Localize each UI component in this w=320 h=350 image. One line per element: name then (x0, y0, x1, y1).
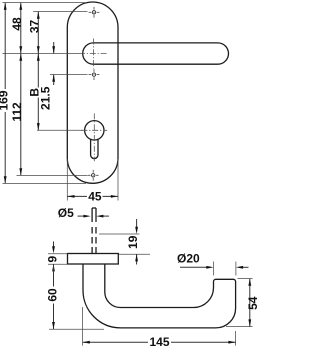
ext line middle hole (50, 74, 88, 76)
spindle solid part (92, 208, 96, 222)
lever centerline dash-dot (79, 53, 108, 55)
ext line top hole (33, 11, 88, 13)
ext line rose top right (118, 253, 150, 255)
euro cylinder hole (85, 121, 104, 159)
ext line 145 right (235, 331, 237, 346)
dim 9 arrows (outside) (53, 242, 55, 250)
lever hub vertical centerline (93, 39, 95, 69)
dim 45 label (87, 192, 103, 202)
ext line 45 right (117, 159, 119, 201)
ext line bottom hole (17, 174, 88, 176)
dim 112 line (20, 54, 22, 176)
svg-text:21.5: 21.5 (39, 86, 53, 110)
dim 19 arrows (outside) (136, 219, 138, 230)
dim 54 line (249, 279, 251, 327)
handle profile (side view) (83, 264, 236, 328)
svg-text:9: 9 (46, 256, 60, 263)
spindle hidden part (dashed) (92, 227, 96, 254)
svg-text:60: 60 (46, 288, 60, 302)
svg-text:54: 54 (246, 296, 257, 310)
ext line plate top (3, 2, 87, 4)
dim Ø5 right arrow (100, 215, 109, 217)
dim 169 line (4, 3, 6, 184)
dim Ø5 leader arrow (78, 215, 88, 217)
cylinder horizontal centerline (81, 129, 107, 131)
dim 145 label (148, 337, 171, 347)
lever centerline extension (3, 53, 80, 55)
dim 45 line (67, 195, 118, 197)
dim 60 line (with 9 bottom arrow at top) (52, 264, 55, 271)
dim Ø20 arrows (outside) (180, 266, 210, 268)
dim 60 label (49, 287, 59, 304)
dim Ø20 ext lines (213, 262, 215, 276)
ext line grip bottom right (226, 326, 253, 328)
svg-text:Ø5: Ø5 (58, 206, 74, 220)
rose (side view) (68, 254, 119, 265)
svg-text:Ø20: Ø20 (177, 252, 200, 266)
ext line 145 left (82, 307, 84, 346)
dim 48 line (20, 3, 22, 54)
ext line spindle end (99, 233, 140, 235)
ext line cylinder center (37, 129, 83, 131)
ext line tip top (238, 278, 253, 280)
dim 37 line (37, 12, 39, 54)
ext line 45 left (66, 159, 68, 201)
screw hole top (89, 7, 100, 18)
svg-text:112: 112 (10, 102, 24, 122)
svg-text:48: 48 (10, 17, 24, 31)
cylinder vertical centerline (93, 113, 95, 161)
svg-text:45: 45 (88, 189, 102, 203)
dim 145 line (83, 341, 236, 343)
dim 169 arrows (4, 3, 7, 10)
lever handle (front view) (83, 43, 229, 64)
ext line plate bottom (3, 182, 87, 184)
svg-text:19: 19 (126, 235, 140, 249)
svg-text:37: 37 (27, 20, 41, 34)
screw hole bottom (88, 170, 99, 181)
ext line grip bottom left (49, 328, 104, 330)
screw hole middle (89, 69, 100, 80)
ext line rose top left (48, 253, 68, 255)
dim 169 label (0, 89, 9, 112)
dim B line (37, 54, 39, 131)
backplate outline (67, 2, 118, 183)
ext line rose bottom left (48, 263, 68, 265)
dim 21.5 arrows (outside) (53, 42, 55, 54)
dim B label (33, 88, 41, 98)
svg-text:145: 145 (149, 335, 169, 349)
